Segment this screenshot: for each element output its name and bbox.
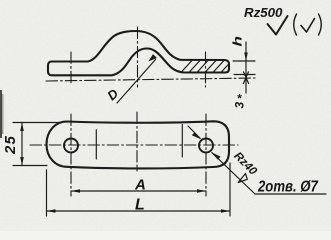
svg-text:2отв. Ø7: 2отв. Ø7 (257, 178, 319, 195)
svg-text:25: 25 (2, 135, 19, 155)
svg-text:Rz500: Rz500 (244, 5, 283, 20)
svg-text:A: A (134, 177, 146, 194)
svg-text:L: L (135, 197, 145, 214)
svg-text:h: h (232, 36, 245, 47)
